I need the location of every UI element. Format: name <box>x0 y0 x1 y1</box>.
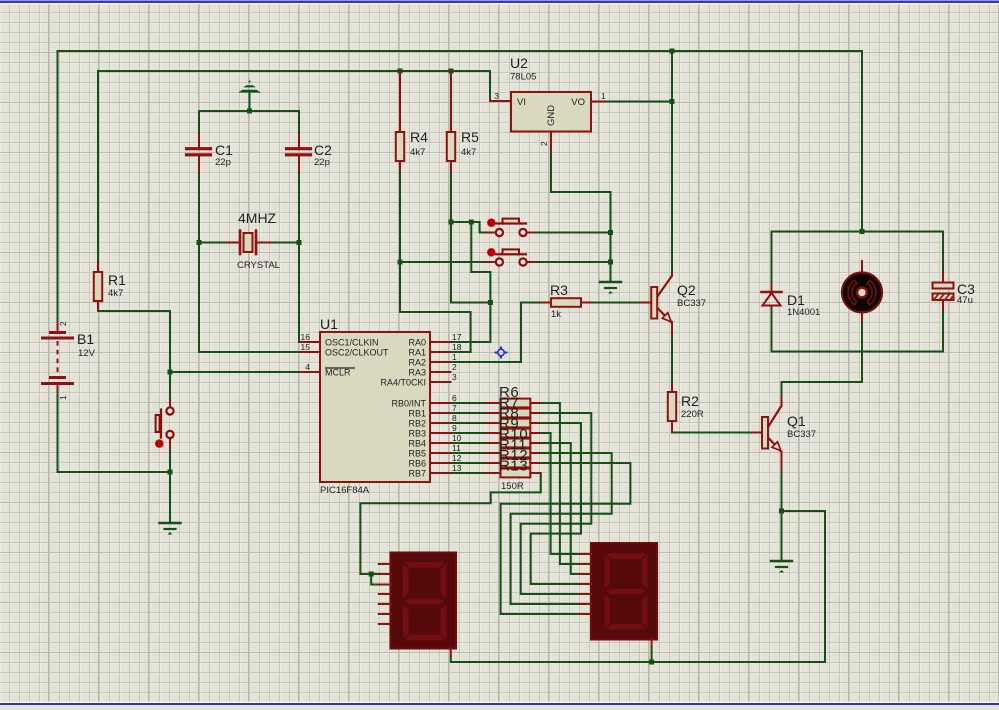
resistor R2 <box>668 384 704 433</box>
wire left display second segment <box>371 574 379 585</box>
node left display feed <box>369 572 374 577</box>
svg-text:R1: R1 <box>108 272 126 288</box>
node button bottom <box>168 470 173 475</box>
node button2 right joins gnd column <box>608 260 613 265</box>
svg-text:1: 1 <box>58 395 68 400</box>
svg-text:MCLR: MCLR <box>325 368 351 378</box>
svg-text:BC337: BC337 <box>677 298 706 309</box>
svg-text:R2: R2 <box>681 393 699 409</box>
wire R11 output hook to right display seg6 <box>511 453 612 604</box>
svg-text:11: 11 <box>452 443 461 453</box>
svg-text:220R: 220R <box>681 409 704 420</box>
node MCLR tap <box>168 370 173 375</box>
wire top supply rail <box>58 50 863 52</box>
svg-text:9: 9 <box>452 423 457 433</box>
seven segment display DS2 right <box>580 543 657 648</box>
svg-text:15: 15 <box>301 342 311 352</box>
svg-text:RB7: RB7 <box>408 469 426 479</box>
capacitor C3 47u <box>933 273 976 312</box>
diode D1 1N4001 <box>762 284 821 318</box>
svg-text:78L05: 78L05 <box>510 72 536 83</box>
wire R6 output to right display seg2 <box>540 403 580 564</box>
svg-text:BC337: BC337 <box>787 429 816 440</box>
node right display common <box>649 660 654 665</box>
svg-text:150R: 150R <box>501 481 524 492</box>
wire display return loop <box>451 511 825 662</box>
resistor R5 <box>447 71 479 171</box>
wire crystal right to OSC1 <box>299 243 300 343</box>
push button SW1 vertical reset <box>155 400 174 448</box>
svg-text:CRYSTAL: CRYSTAL <box>237 260 280 271</box>
svg-text:RB2: RB2 <box>408 419 426 429</box>
wire RA0 riser to pin <box>451 303 491 343</box>
wire R10 output to right display seg3 <box>540 443 580 574</box>
node R5 button1 tap <box>449 220 454 225</box>
wire RA2 to R3 <box>451 303 543 363</box>
wire button1 right contact to gnd column <box>536 232 611 234</box>
wire U2 GND to ground <box>551 152 611 282</box>
wire second rail y71 to U2 VI <box>98 71 490 101</box>
svg-text:22p: 22p <box>215 157 231 168</box>
svg-text:RB5: RB5 <box>408 449 426 459</box>
wire R1 top vertical <box>97 71 99 261</box>
svg-text:RA0: RA0 <box>408 338 426 348</box>
node RA0 riser junction <box>488 300 493 305</box>
svg-text:C1: C1 <box>215 142 233 158</box>
svg-text:1k: 1k <box>551 309 561 320</box>
wire R7 output hook to right display seg5 <box>521 413 592 594</box>
wire Q1 emitter down to ground <box>781 470 783 561</box>
resistor R4 <box>396 71 428 171</box>
wire R4 bottom to button2 row and RA1 <box>400 171 471 352</box>
wire power symbol to C1 C2 rail <box>249 91 251 111</box>
transistor Q1 BC337 <box>753 396 816 470</box>
resistor R3 <box>543 282 592 320</box>
svg-text:6: 6 <box>452 393 457 403</box>
svg-text:7: 7 <box>452 403 457 413</box>
resistor R1 <box>94 261 126 311</box>
svg-text:VI: VI <box>517 97 526 108</box>
wire Q1 collector to motor bottom <box>782 382 863 396</box>
svg-text:17: 17 <box>452 332 462 342</box>
ground for U2 / buttons <box>600 282 621 294</box>
node U2 VO / Q2 collector <box>670 99 675 104</box>
wire R9 output to right display seg1 <box>540 433 580 554</box>
svg-text:Q2: Q2 <box>677 282 696 298</box>
svg-text:R5: R5 <box>461 129 479 145</box>
svg-text:10: 10 <box>452 433 462 443</box>
wire D1 vertical <box>771 232 773 352</box>
node crystal right <box>297 240 302 245</box>
svg-text:U1: U1 <box>320 316 338 332</box>
wire crystal left to OSC2 <box>199 243 300 353</box>
svg-text:R3: R3 <box>550 282 568 298</box>
node R4 top <box>398 69 403 74</box>
node R4 button2 row <box>398 260 403 265</box>
wire R12 output hook to right display seg7 <box>501 463 631 614</box>
ground for reset button <box>160 523 181 535</box>
wire U2 VO to Q2 collector column <box>605 101 672 103</box>
svg-text:RB0/INT: RB0/INT <box>391 399 426 409</box>
wire button2 right contact to gnd column <box>536 261 611 263</box>
svg-text:12: 12 <box>452 453 462 463</box>
wire C3 vertical <box>942 232 944 352</box>
svg-text:1N4001: 1N4001 <box>787 307 820 318</box>
node motor top rail <box>860 229 865 234</box>
svg-text:GND: GND <box>546 105 557 126</box>
wire crystal row right <box>271 242 299 244</box>
svg-text:R4: R4 <box>410 129 428 145</box>
svg-text:4k7: 4k7 <box>108 288 123 299</box>
svg-text:RB4: RB4 <box>408 439 426 449</box>
wire R13 output to left display <box>360 473 540 574</box>
wire motor bottom vertical <box>861 323 863 383</box>
motor M1 <box>842 261 882 323</box>
wire button column <box>169 311 171 523</box>
svg-text:4k7: 4k7 <box>461 147 476 158</box>
svg-text:Q1: Q1 <box>787 413 806 429</box>
wire MCLR horizontal <box>170 371 300 373</box>
svg-text:12V: 12V <box>78 348 96 359</box>
svg-text:U2: U2 <box>510 55 528 71</box>
node Q1 emitter / display return <box>779 509 784 514</box>
node button1 right joins gnd column <box>608 230 613 235</box>
battery B1 <box>43 321 96 400</box>
svg-text:18: 18 <box>452 342 462 352</box>
svg-text:OSC1/CLKIN: OSC1/CLKIN <box>325 338 379 348</box>
svg-text:2: 2 <box>452 362 457 372</box>
svg-text:RA4/T0CKI: RA4/T0CKI <box>380 378 426 388</box>
wire R8 output hook to right display seg4 <box>531 423 581 584</box>
svg-text:OSC2/CLKOUT: OSC2/CLKOUT <box>325 348 389 358</box>
wire left display common drop <box>450 656 452 663</box>
node button1 row to RA0 riser <box>469 220 474 225</box>
svg-text:8: 8 <box>452 413 457 423</box>
resistor pack R6-R13 150R <box>486 384 540 492</box>
microcontroller U1 PIC16F84A <box>300 316 462 496</box>
power flag symbol <box>238 80 261 93</box>
wire button2 row horizontal <box>400 261 485 263</box>
wire Q2 emitter to R2 <box>671 334 673 384</box>
svg-text:D1: D1 <box>787 292 805 308</box>
svg-text:2: 2 <box>58 321 68 326</box>
wire C1 C2 top rail <box>199 110 299 112</box>
node crystal left <box>197 240 202 245</box>
wire RA0 riser upper part <box>471 222 490 303</box>
wire Q2 collector vertical to top rail <box>671 51 673 273</box>
svg-text:2: 2 <box>539 141 549 146</box>
svg-text:1: 1 <box>601 91 606 101</box>
wire battery bottom to button column <box>58 392 171 472</box>
wire R2 to Q1 base <box>672 431 753 434</box>
ground for Q1 emitter <box>771 561 792 573</box>
svg-text:RA3: RA3 <box>408 368 426 378</box>
svg-text:3: 3 <box>452 372 457 382</box>
regulator U2 78L05 <box>490 55 606 152</box>
svg-text:22p: 22p <box>314 157 330 168</box>
crystal X1 4MHZ <box>228 210 280 271</box>
wire D1 C3 bottom rail <box>772 351 944 353</box>
push button SW2 horizontal <box>485 218 536 236</box>
svg-text:47u: 47u <box>957 295 973 306</box>
svg-text:PIC16F84A: PIC16F84A <box>320 485 370 496</box>
svg-text:3: 3 <box>494 91 499 101</box>
wire right display common drop <box>651 648 653 663</box>
node power tap <box>247 109 252 114</box>
wire button1 row horizontal <box>451 222 485 233</box>
svg-text:4: 4 <box>305 362 310 372</box>
wire R1 bottom to button column <box>98 310 170 312</box>
svg-text:4MHZ: 4MHZ <box>238 210 277 226</box>
wire C1 verticals <box>198 111 200 243</box>
wire C2 verticals <box>298 111 300 243</box>
svg-text:VO: VO <box>571 97 585 108</box>
capacitor C2 <box>287 134 333 171</box>
wire D1 C3 top rail <box>772 231 944 233</box>
svg-text:4k7: 4k7 <box>410 147 425 158</box>
svg-text:RA2: RA2 <box>408 358 426 368</box>
wire battery top vertical <box>57 51 59 323</box>
wire R3 to Q2 base <box>591 302 641 304</box>
svg-text:R13: R13 <box>499 458 528 475</box>
wires U1 RB pins to resistor pack <box>451 403 488 473</box>
seven segment display DS1 left <box>379 553 456 656</box>
svg-text:C2: C2 <box>314 142 332 158</box>
svg-text:RB1: RB1 <box>408 409 426 419</box>
wire crystal row left <box>199 242 228 244</box>
capacitor C1 <box>187 134 234 171</box>
node top rail / Q2 column <box>670 49 675 54</box>
node R5 top <box>449 69 454 74</box>
wire R5 bottom vertical <box>451 171 490 303</box>
svg-text:RB3: RB3 <box>408 429 426 439</box>
svg-text:B1: B1 <box>77 331 94 347</box>
push button SW3 horizontal <box>485 248 536 266</box>
svg-text:1: 1 <box>452 352 457 362</box>
wire RA1 to pin <box>451 351 471 353</box>
origin marker <box>495 347 508 359</box>
wire top rail drop to motor <box>861 51 863 232</box>
transistor Q2 BC337 <box>641 273 706 334</box>
svg-text:RA1: RA1 <box>408 348 426 358</box>
svg-text:16: 16 <box>301 332 311 342</box>
svg-text:RB6: RB6 <box>408 459 426 469</box>
svg-text:13: 13 <box>452 463 462 473</box>
